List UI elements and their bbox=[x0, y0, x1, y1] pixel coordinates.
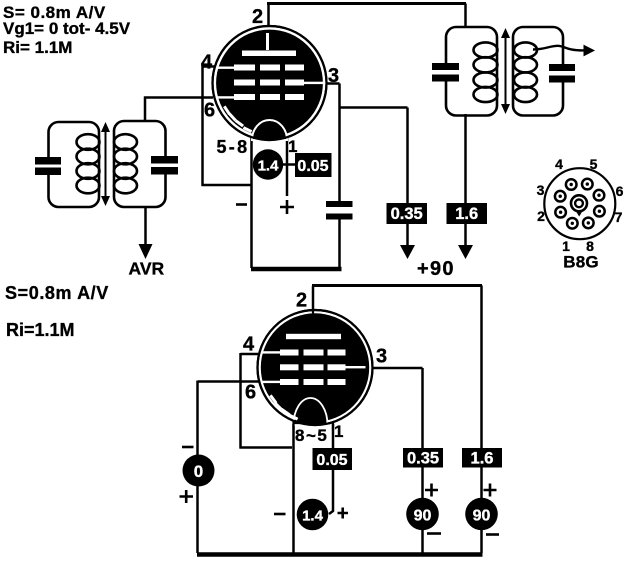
svg-text:4: 4 bbox=[201, 52, 213, 74]
svg-text:1.6: 1.6 bbox=[455, 205, 478, 223]
svg-text:Ri=1.1M: Ri=1.1M bbox=[6, 320, 75, 340]
svg-text:0.05: 0.05 bbox=[297, 158, 328, 175]
svg-text:4: 4 bbox=[555, 156, 563, 172]
svg-text:4: 4 bbox=[243, 334, 255, 356]
svg-text:90: 90 bbox=[414, 508, 432, 525]
svg-text:3: 3 bbox=[537, 182, 545, 198]
svg-text:2: 2 bbox=[296, 290, 307, 312]
svg-text:3: 3 bbox=[328, 65, 339, 87]
svg-text:0.35: 0.35 bbox=[391, 205, 423, 223]
svg-text:7: 7 bbox=[615, 209, 623, 225]
svg-text:6: 6 bbox=[245, 382, 256, 404]
svg-text:3: 3 bbox=[376, 346, 387, 368]
svg-text:1: 1 bbox=[288, 137, 297, 156]
svg-text:6: 6 bbox=[204, 100, 215, 122]
svg-text:5-8: 5-8 bbox=[217, 137, 250, 157]
svg-text:0.35: 0.35 bbox=[407, 450, 439, 468]
svg-text:S=0.8m A/V: S=0.8m A/V bbox=[5, 283, 109, 303]
svg-text:2: 2 bbox=[537, 208, 545, 224]
svg-text:Vg1= 0 tot- 4.5V: Vg1= 0 tot- 4.5V bbox=[3, 19, 131, 38]
svg-text:1.6: 1.6 bbox=[471, 450, 494, 468]
svg-text:AVR: AVR bbox=[129, 259, 165, 279]
svg-text:+90: +90 bbox=[417, 258, 455, 280]
svg-text:5: 5 bbox=[590, 156, 598, 172]
svg-text:2: 2 bbox=[252, 6, 263, 28]
svg-text:6: 6 bbox=[616, 183, 624, 199]
svg-text:Ri= 1.1M: Ri= 1.1M bbox=[3, 38, 72, 57]
svg-text:90: 90 bbox=[473, 508, 491, 525]
svg-text:0.05: 0.05 bbox=[316, 452, 347, 469]
svg-text:8~5: 8~5 bbox=[295, 426, 328, 445]
svg-text:1: 1 bbox=[334, 422, 343, 441]
svg-text:1.4: 1.4 bbox=[302, 508, 324, 525]
svg-text:1.4: 1.4 bbox=[258, 158, 280, 175]
svg-text:B8G: B8G bbox=[563, 253, 599, 272]
svg-text:0: 0 bbox=[194, 462, 203, 481]
